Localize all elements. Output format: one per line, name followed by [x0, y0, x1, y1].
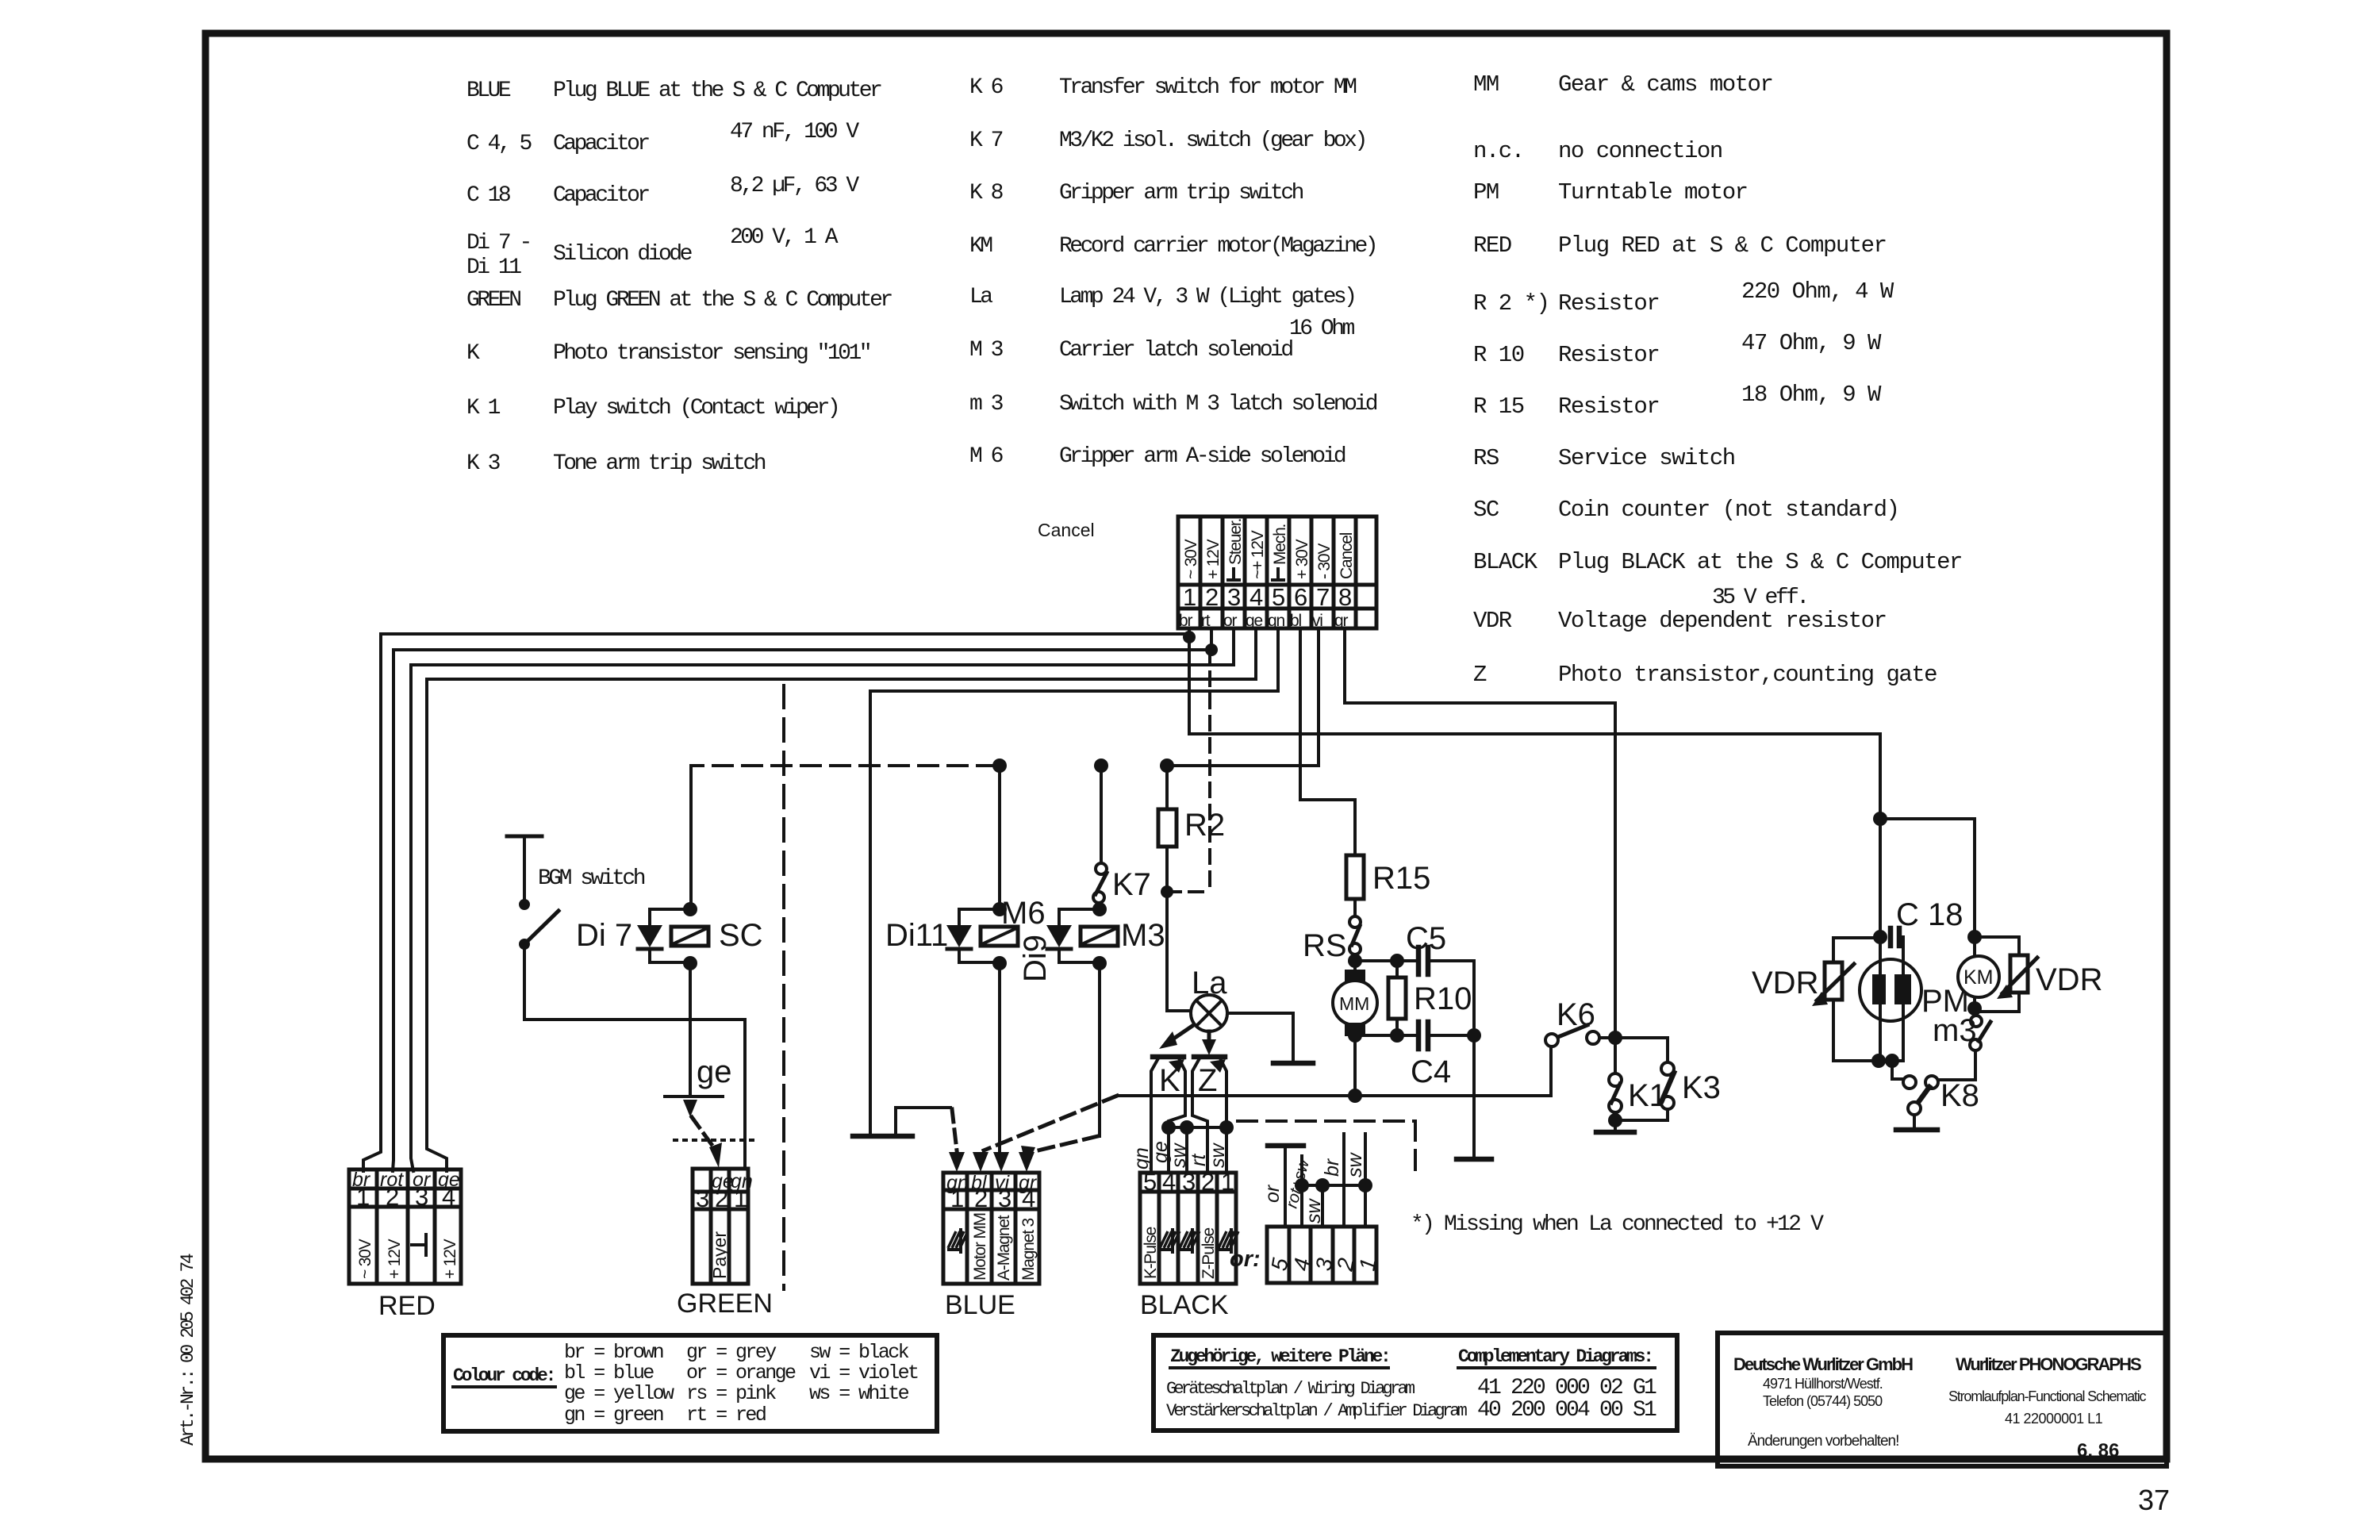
svg-text:M3/K2 isol. switch (gear box): M3/K2 isol. switch (gear box) — [1059, 129, 1365, 153]
wire relay bus dashed part to SC — [691, 764, 996, 767]
svg-text:PM: PM — [1473, 179, 1499, 205]
svg-text:Di9: Di9 — [1018, 935, 1053, 982]
svg-text:RED: RED — [1473, 232, 1511, 259]
svg-text:gn: gn — [1268, 612, 1284, 630]
svg-text:6. 86: 6. 86 — [2077, 1440, 2119, 1461]
svg-text:K 7: K 7 — [969, 129, 1003, 153]
svg-text:6: 6 — [1294, 583, 1307, 611]
svg-text:C5: C5 — [1406, 921, 1446, 956]
svg-text:Änderungen vorbehalten!: Änderungen vorbehalten! — [1748, 1433, 1898, 1450]
resistor R2 — [1158, 766, 1225, 1011]
svg-text:M 3: M 3 — [969, 338, 1004, 363]
svg-text:La: La — [969, 285, 992, 309]
svg-text:KM: KM — [1963, 966, 1994, 989]
svg-text:Capacitor: Capacitor — [553, 132, 649, 156]
svg-text:200 V, 1 A: 200 V, 1 A — [730, 225, 839, 250]
svg-text:Deutsche Wurlitzer GmbH: Deutsche Wurlitzer GmbH — [1733, 1354, 1913, 1374]
svg-text:Photo transistor,counting gate: Photo transistor,counting gate — [1558, 662, 1937, 688]
svg-text:GREEN: GREEN — [677, 1288, 773, 1319]
svg-text:Capacitor: Capacitor — [553, 183, 649, 208]
svg-text:La: La — [1192, 966, 1227, 1000]
arrows into BLUE — [949, 1152, 965, 1172]
svg-text:~+ 12V: ~+ 12V — [1249, 530, 1267, 579]
switch ge (to GREEN-2) — [665, 1054, 759, 1168]
svg-text:Z-Pulse: Z-Pulse — [1200, 1228, 1218, 1279]
wire -30V net (pin7 to relay bus) — [1167, 628, 1319, 766]
svg-text:RS: RS — [1303, 928, 1347, 963]
wire ge net (pin4 to RED-4) — [427, 628, 1256, 1171]
connector plug RED — [349, 1169, 461, 1321]
wire to KM column — [1880, 819, 1975, 957]
wire +30V net (pin6 to R15 feed) — [1300, 628, 1355, 855]
svg-text:rt: rt — [1201, 612, 1211, 630]
switch RS — [1303, 916, 1361, 963]
svg-text:SC: SC — [1473, 497, 1499, 523]
diode Di7 + relay SC — [576, 902, 763, 970]
svg-text:2: 2 — [715, 1185, 728, 1212]
svg-text:no connection: no connection — [1558, 138, 1722, 164]
svg-text:K8: K8 — [1940, 1078, 1979, 1113]
dashed link bus to BLUE-2 (bl) — [984, 1096, 1117, 1150]
svg-text:C4: C4 — [1411, 1054, 1451, 1089]
dashed wire rt to R2 node — [1167, 650, 1210, 892]
photo transistor K — [1151, 1057, 1185, 1173]
legend column 2 — [969, 75, 1377, 469]
svg-text:BLACK: BLACK — [1140, 1290, 1229, 1320]
svg-text:Motor MM: Motor MM — [971, 1213, 989, 1281]
svg-text:R15: R15 — [1372, 861, 1430, 896]
wire La to ground — [1227, 1013, 1293, 1062]
svg-text:8,2 µF, 63 V: 8,2 µF, 63 V — [730, 174, 859, 198]
svg-text:M 6: M 6 — [969, 444, 1003, 469]
svg-text:M6: M6 — [1001, 896, 1046, 931]
svg-text:RED: RED — [378, 1291, 436, 1321]
diode Di11 + relay M6 — [885, 896, 1046, 970]
svg-text:18 Ohm, 9 W: 18 Ohm, 9 W — [1741, 382, 1882, 408]
svg-text:SC: SC — [719, 918, 763, 953]
svg-text:K: K — [1159, 1063, 1180, 1098]
svg-text:Zugehörige, weitere Pläne:: Zugehörige, weitere Pläne: — [1170, 1346, 1389, 1367]
svg-text:Service switch: Service switch — [1558, 445, 1735, 471]
wire SC to ge switch — [689, 963, 692, 1096]
svg-text:vi = violet: vi = violet — [809, 1361, 918, 1384]
svg-text:C 18: C 18 — [466, 183, 510, 208]
wire m3 to K8 — [1938, 1050, 1975, 1080]
capacitor C18 — [1880, 897, 1963, 960]
svg-text:Stromlaufplan-Functional Schem: Stromlaufplan-Functional Schematic — [1948, 1388, 2147, 1404]
connector plug top (pins 1-8) — [1178, 517, 1376, 630]
svg-text:Resistor: Resistor — [1558, 342, 1659, 368]
svg-text:2: 2 — [386, 1183, 399, 1211]
wire br continuation to right motors — [1189, 734, 1880, 937]
svg-text:ge = yellow: ge = yellow — [564, 1382, 674, 1405]
svg-text:Wurlitzer PHONOGRAPHS: Wurlitzer PHONOGRAPHS — [1956, 1354, 2141, 1374]
svg-text:5: 5 — [1272, 583, 1285, 611]
svg-text:Cancel: Cancel — [1338, 532, 1356, 579]
resistor R10 — [1388, 961, 1472, 1035]
svg-text:R10: R10 — [1414, 981, 1472, 1016]
svg-text:Mech.: Mech. — [1271, 524, 1289, 565]
wire or net (pin3 to RED-3) — [411, 628, 1234, 1171]
switch K8 — [1903, 1076, 1979, 1128]
svg-text:~ 30V: ~ 30V — [1182, 539, 1200, 579]
svg-text:sw = black: sw = black — [809, 1341, 909, 1364]
svg-text:GREEN: GREEN — [466, 288, 520, 313]
svg-text:Z: Z — [1473, 662, 1487, 688]
ground bar La — [1273, 1061, 1313, 1066]
svg-text:BLACK: BLACK — [1473, 549, 1538, 575]
svg-text:3: 3 — [1227, 583, 1241, 611]
varistor VDR left — [1752, 938, 1880, 1061]
svg-text:41 220 000 02 G1: 41 220 000 02 G1 — [1477, 1376, 1656, 1400]
svg-text:Cancel: Cancel — [1038, 520, 1095, 540]
svg-text:Di11: Di11 — [885, 918, 948, 953]
wire rt net (pin2 to RED-2) — [393, 628, 1211, 1171]
svg-text:Steuer.: Steuer. — [1226, 519, 1245, 565]
motor PM — [1860, 959, 1969, 1061]
svg-text:K 6: K 6 — [969, 75, 1003, 100]
svg-text:VDR: VDR — [2036, 962, 2102, 997]
svg-text:*) Missing when La connected t: *) Missing when La connected to +12 V — [1411, 1212, 1824, 1237]
connector plug GREEN — [677, 1169, 773, 1319]
svg-text:K1: K1 — [1628, 1078, 1667, 1113]
ground bar Mech — [853, 1134, 912, 1139]
wire Mech ground net (pin5) — [870, 628, 1278, 1135]
svg-text:gr = grey: gr = grey — [686, 1341, 777, 1364]
svg-text:BLUE: BLUE — [945, 1290, 1015, 1320]
svg-text:2: 2 — [1205, 583, 1219, 611]
svg-text:Z: Z — [1198, 1063, 1217, 1098]
svg-text:1: 1 — [356, 1183, 370, 1211]
motor KM — [1958, 956, 1999, 997]
junction row above BLACK — [1169, 1127, 1226, 1173]
svg-text:Plug GREEN at the S & C Comput: Plug GREEN at the S & C Computer — [553, 288, 892, 313]
svg-text:R2: R2 — [1184, 808, 1225, 843]
svg-text:+ 12V: + 12V — [1204, 539, 1223, 579]
svg-text:Colour code:: Colour code: — [453, 1365, 554, 1386]
svg-text:rs = pink: rs = pink — [686, 1382, 776, 1405]
svg-text:Plug BLUE at the S & C Compute: Plug BLUE at the S & C Computer — [553, 79, 881, 103]
svg-text:n.c.: n.c. — [1473, 138, 1524, 164]
dashed link M3 to BLUE-4 (gr) — [1031, 1136, 1098, 1152]
svg-text:br = brown: br = brown — [564, 1341, 663, 1364]
junction dots on relay bus — [992, 758, 1007, 773]
svg-text:R 2 *): R 2 *) — [1473, 290, 1549, 317]
svg-text:K-Pulse: K-Pulse — [1142, 1227, 1160, 1279]
svg-text:MM: MM — [1473, 71, 1499, 98]
svg-text:41 22000001 L1: 41 22000001 L1 — [2005, 1411, 2103, 1427]
svg-text:sw: sw — [1207, 1143, 1229, 1169]
svg-text:220 Ohm, 4 W: 220 Ohm, 4 W — [1741, 278, 1894, 305]
wire K7 drop — [1100, 766, 1103, 862]
wire Cancel net (pin8 to K6) — [1345, 628, 1615, 1031]
wire M6 to BLUE-3 (vi) — [998, 963, 1001, 1152]
ground bar K8 — [1896, 1127, 1937, 1133]
svg-text:R 10: R 10 — [1473, 342, 1524, 368]
capacitor C5 branch — [1355, 921, 1474, 1035]
svg-text:Gear & cams motor: Gear & cams motor — [1558, 71, 1772, 98]
svg-text:47 Ohm, 9 W: 47 Ohm, 9 W — [1741, 330, 1882, 356]
or-block col4 wire — [1300, 1156, 1303, 1227]
svg-text:4971 Hüllhorst/Westf.: 4971 Hüllhorst/Westf. — [1763, 1376, 1883, 1392]
colour code box — [443, 1335, 937, 1431]
switch K3 — [1615, 1038, 1721, 1120]
svg-text:2: 2 — [974, 1185, 988, 1212]
svg-text:Plug BLACK at the S & C Comput: Plug BLACK at the S & C Computer — [1558, 549, 1962, 575]
svg-text:1: 1 — [1183, 583, 1196, 611]
or-block col2 wire — [1342, 1134, 1345, 1227]
junction node top of motor column — [1873, 812, 1887, 826]
svg-text:K7: K7 — [1112, 867, 1151, 902]
svg-text:Di 7 -: Di 7 - — [466, 231, 530, 255]
dashed link Mech bracket to BLUE-1 (gn) — [896, 1108, 950, 1135]
svg-text:K 3: K 3 — [466, 451, 501, 476]
svg-text:BGM switch: BGM switch — [538, 866, 645, 891]
svg-text:ge: ge — [1246, 612, 1262, 630]
svg-text:sw: sw — [1168, 1143, 1190, 1169]
svg-text:K6: K6 — [1557, 997, 1595, 1032]
ground bar K1 — [1596, 1130, 1634, 1135]
svg-text:Lamp 24 V, 3 W (Light gates): Lamp 24 V, 3 W (Light gates) — [1059, 285, 1354, 309]
svg-text:Complementary Diagrams:: Complementary Diagrams: — [1458, 1346, 1652, 1367]
legend column 3 — [1473, 71, 1962, 688]
svg-text:Payer: Payer — [709, 1231, 730, 1279]
dashed line to or-plug — [1238, 1121, 1415, 1177]
svg-text:M3: M3 — [1121, 918, 1165, 953]
diode Di9 + relay M3 — [1018, 902, 1165, 982]
svg-text:8: 8 — [1338, 583, 1352, 611]
light arrow to K — [1173, 1026, 1192, 1039]
wire br net (pin1 to RED-1) — [363, 628, 1189, 1171]
svg-text:Magnet 3: Magnet 3 — [1019, 1219, 1038, 1281]
wire PM bottom to K8 — [1892, 1061, 1902, 1079]
switch K1 — [1608, 1038, 1667, 1131]
svg-text:A-Magnet: A-Magnet — [995, 1215, 1013, 1281]
svg-text:1: 1 — [734, 1185, 747, 1212]
svg-text:47 nF, 100 V: 47 nF, 100 V — [730, 120, 859, 144]
svg-text:sw: sw — [1344, 1152, 1366, 1178]
svg-text:K 8: K 8 — [969, 181, 1003, 205]
wire M3 down — [1098, 963, 1101, 1136]
wire colour labels above BLACK — [1130, 1141, 1229, 1169]
or-block col1 wire — [1364, 1134, 1367, 1227]
switch m3 — [1933, 997, 1990, 1050]
svg-text:VDR: VDR — [1473, 608, 1512, 634]
svg-text:Verstärkerschaltplan / Amplifi: Verstärkerschaltplan / Amplifier Diagram — [1166, 1401, 1468, 1421]
svg-text:Turntable motor: Turntable motor — [1558, 179, 1748, 205]
svg-text:Telefon (05744) 5050: Telefon (05744) 5050 — [1763, 1393, 1883, 1409]
svg-text:Record carrier motor(Magazine): Record carrier motor(Magazine) — [1059, 234, 1376, 259]
svg-text:m 3: m 3 — [969, 392, 1004, 417]
wire C-branch to ground — [1472, 1035, 1476, 1158]
svg-text:C 4, 5: C 4, 5 — [466, 132, 532, 156]
svg-text:4: 4 — [1022, 1185, 1035, 1212]
svg-text:C 18: C 18 — [1896, 897, 1963, 932]
svg-text:Coin counter (not standard): Coin counter (not standard) — [1558, 497, 1898, 523]
svg-text:Silicon diode: Silicon diode — [553, 242, 692, 267]
complementary diagrams box — [1154, 1335, 1677, 1431]
capacitor C4 branch — [1355, 1022, 1474, 1089]
svg-text:3: 3 — [1182, 1168, 1196, 1196]
svg-text:3: 3 — [415, 1183, 428, 1211]
svg-text:ge: ge — [697, 1054, 732, 1089]
manufacturer box — [1718, 1333, 2167, 1466]
svg-text:- 30V: - 30V — [1315, 543, 1334, 579]
svg-text:Plug RED at S & C Computer: Plug RED at S & C Computer — [1558, 232, 1886, 259]
wire BGM to GREEN-1 — [524, 944, 745, 1169]
svg-text:Geräteschaltplan / Wiring Diag: Geräteschaltplan / Wiring Diagram — [1166, 1379, 1415, 1399]
svg-text:37: 37 — [2138, 1484, 2170, 1516]
or-block junction row — [1302, 1184, 1365, 1187]
or-block col3 wire — [1321, 1185, 1324, 1227]
svg-text:K3: K3 — [1682, 1070, 1721, 1105]
connector plug BLUE — [943, 1172, 1039, 1320]
svg-text:Photo transistor sensing "101": Photo transistor sensing "101" — [553, 341, 869, 366]
svg-text:KM: KM — [969, 234, 992, 259]
svg-text:gn = green: gn = green — [564, 1404, 663, 1427]
motor MM — [1333, 970, 1377, 1036]
svg-text:or: or — [1261, 1184, 1284, 1203]
svg-text:Transfer switch for motor MM: Transfer switch for motor MM — [1059, 75, 1357, 100]
border frame — [205, 33, 2167, 1459]
svg-text:or:: or: — [1230, 1246, 1261, 1272]
svg-text:Voltage dependent resistor: Voltage dependent resistor — [1558, 608, 1886, 634]
svg-text:5: 5 — [1143, 1168, 1157, 1196]
svg-text:br: br — [1321, 1158, 1343, 1177]
resistor R15 — [1346, 855, 1430, 899]
svg-text:ws = white: ws = white — [809, 1382, 909, 1405]
svg-text:Play switch (Contact wiper): Play switch (Contact wiper) — [553, 396, 838, 421]
svg-text:+ 12V: + 12V — [386, 1239, 404, 1279]
svg-text:35 V eff.: 35 V eff. — [1712, 586, 1807, 610]
svg-text:K 1: K 1 — [466, 396, 501, 421]
long dashed separator line — [782, 686, 785, 1289]
svg-text:4: 4 — [442, 1183, 455, 1211]
svg-text:Gripper arm A-side solenoid: Gripper arm A-side solenoid — [1059, 444, 1345, 469]
svg-text:rt = red: rt = red — [686, 1404, 766, 1427]
svg-text:~ 30V: ~ 30V — [356, 1239, 374, 1279]
svg-text:RS: RS — [1473, 445, 1499, 471]
lamp La — [1167, 966, 1227, 1031]
svg-text:3: 3 — [998, 1185, 1011, 1212]
svg-text:VDR: VDR — [1752, 966, 1818, 1000]
legend column 1 — [466, 79, 892, 476]
svg-text:m3: m3 — [1933, 1013, 1977, 1048]
svg-text:Switch with M 3 latch solenoid: Switch with M 3 latch solenoid — [1059, 392, 1377, 417]
svg-text:1: 1 — [950, 1185, 964, 1212]
svg-text:Resistor: Resistor — [1558, 394, 1659, 420]
svg-text:4: 4 — [1162, 1168, 1176, 1196]
svg-text:3: 3 — [696, 1185, 709, 1212]
switch BGM — [507, 836, 645, 950]
photo transistor Z — [1192, 1057, 1226, 1173]
svg-text:Resistor: Resistor — [1558, 290, 1659, 317]
switch K7 — [1093, 863, 1151, 903]
or-block stub col5 with T bar — [1284, 1147, 1287, 1227]
svg-text:+ 12V: + 12V — [441, 1239, 459, 1279]
svg-text:bl = blue: bl = blue — [564, 1361, 654, 1384]
svg-text:or = orange: or = orange — [686, 1361, 796, 1384]
connector plug BLACK — [1140, 1168, 1238, 1320]
ground bar MM branch — [1457, 1157, 1491, 1162]
svg-text:R 15: R 15 — [1473, 394, 1524, 420]
light arrow to Z — [1207, 1031, 1211, 1041]
svg-text:Tone arm trip switch: Tone arm trip switch — [553, 451, 766, 476]
svg-text:+ 30V: + 30V — [1293, 539, 1311, 579]
switch K6 — [1545, 997, 1615, 1096]
wire main bottom bus — [1117, 1094, 1551, 1097]
svg-text:BLUE: BLUE — [466, 79, 511, 103]
svg-text:16 Ohm: 16 Ohm — [1289, 317, 1355, 341]
connector alternative or: — [1230, 1227, 1381, 1283]
svg-text:4: 4 — [1249, 583, 1263, 611]
svg-text:7: 7 — [1316, 583, 1330, 611]
svg-text:Carrier latch solenoid: Carrier latch solenoid — [1059, 338, 1292, 363]
svg-text:Di 7: Di 7 — [576, 918, 632, 953]
svg-text:40 200 004 00 S1: 40 200 004 00 S1 — [1477, 1398, 1656, 1423]
svg-text:Di 11: Di 11 — [466, 255, 521, 280]
varistor VDR right — [1975, 937, 2102, 1012]
svg-text:MM: MM — [1339, 993, 1369, 1014]
svg-text:Art.-Nr.: 00 205 402 74: Art.-Nr.: 00 205 402 74 — [178, 1254, 198, 1446]
wire M6 drop — [998, 766, 1001, 909]
svg-text:Gripper arm trip switch: Gripper arm trip switch — [1059, 181, 1303, 205]
or-block wire labels — [1261, 1152, 1366, 1224]
svg-text:1: 1 — [1221, 1168, 1234, 1196]
svg-text:2: 2 — [1201, 1168, 1215, 1196]
svg-text:sw: sw — [1303, 1198, 1325, 1224]
